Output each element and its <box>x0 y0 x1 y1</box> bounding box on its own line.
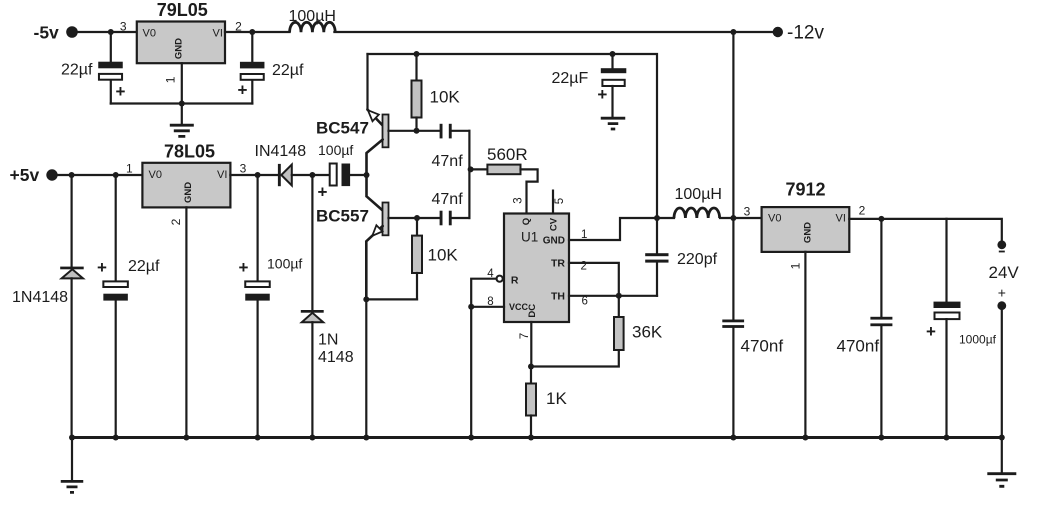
svg-text:VI: VI <box>217 169 227 181</box>
wire U1 pin8 (vcc) <box>471 306 504 308</box>
polarity - (24V top) <box>999 251 1005 253</box>
svg-text:+: + <box>238 81 248 100</box>
svg-text:10K: 10K <box>428 246 459 265</box>
svg-text:22µf: 22µf <box>128 258 160 275</box>
svg-text:GND: GND <box>543 236 565 247</box>
svg-text:2: 2 <box>169 218 183 225</box>
label 1N4148 (D1) <box>12 289 68 306</box>
svg-text:V0: V0 <box>768 213 781 225</box>
svg-text:+: + <box>926 322 936 341</box>
pin label GND (7912, rotated) <box>802 222 813 243</box>
wire Q2 base <box>389 217 441 219</box>
capacitor C6 47nf (upper) <box>440 124 470 139</box>
pin label 3 (U1, rotated) <box>512 197 524 203</box>
inductor L2 100uH <box>674 208 720 218</box>
capacitor C4 100uf (below rail) <box>245 175 270 438</box>
svg-text:GND: GND <box>173 38 184 59</box>
node ground rail x=366.3 <box>363 435 369 441</box>
pin label 1 (78L05 VO) <box>126 162 133 176</box>
svg-text:47nf: 47nf <box>432 153 464 170</box>
capacitor C10 470nf (left) <box>722 218 744 438</box>
label TH (U1) <box>551 290 565 302</box>
wire U1 pin6 (threshold) <box>569 295 657 297</box>
wire 24V positive to ground rail <box>1001 310 1003 438</box>
node -12v feed junction <box>654 215 660 221</box>
resistor R2 10K (lower) <box>412 218 422 299</box>
wire Q2 collector to 10K bottom <box>366 298 417 300</box>
label 1N (D3) <box>318 332 338 349</box>
regulator U4 78L05 body <box>142 163 230 208</box>
pin label 2 (78L05 GND, rotated) <box>169 218 183 225</box>
pin label VO (7912) <box>768 213 781 225</box>
terminal +5v <box>46 169 57 180</box>
svg-text:2: 2 <box>581 261 587 273</box>
node 79L05 ground junction <box>179 101 185 107</box>
pin label 4 (U1) <box>487 268 494 280</box>
svg-text:1000µf: 1000µf <box>959 333 997 347</box>
wire Q2 collector to ground rail <box>365 299 367 437</box>
node ground rail x=946.5 <box>944 435 950 441</box>
svg-text:22µf: 22µf <box>272 62 304 79</box>
diode D2 IN4148 (horizontal, cathode left) <box>278 164 292 186</box>
svg-text:22µF: 22µF <box>552 70 589 87</box>
ground G1 below 79L05 <box>170 125 194 136</box>
wire -5v rail left <box>72 31 137 33</box>
label TR (U1) <box>551 257 565 269</box>
svg-text:-5v: -5v <box>34 23 60 43</box>
wire U1 pin2 (trigger) <box>569 263 619 296</box>
label 560R <box>487 145 528 164</box>
wire U1 pin4 (reset) <box>471 279 496 438</box>
node inner rail / C8 <box>610 51 616 57</box>
label IN4148 <box>255 143 307 160</box>
node top rail / C2 junction <box>249 29 255 35</box>
svg-text:+: + <box>239 258 249 277</box>
label -12v <box>787 23 824 44</box>
svg-text:24V: 24V <box>989 263 1020 282</box>
capacitor C8 22uF <box>601 54 627 118</box>
svg-text:220pf: 220pf <box>677 251 718 268</box>
node ground rail x=257.6 <box>255 435 261 441</box>
node ground rail x=531 <box>528 435 534 441</box>
node pin7/1K/36K junction <box>528 364 534 370</box>
node ground rail x=72 <box>69 435 75 441</box>
pin label VI (78L05) <box>217 169 227 181</box>
svg-text:3: 3 <box>744 205 751 219</box>
wire +5v rail <box>52 174 142 176</box>
polarity + (C12) <box>926 322 936 341</box>
polarity + (C2) <box>238 81 248 100</box>
svg-text:36K: 36K <box>632 323 663 342</box>
svg-text:1: 1 <box>581 229 587 241</box>
node ground rail x=881.4 <box>878 435 884 441</box>
pin label 3 (7912 VO) <box>744 205 751 219</box>
IC U1 555 body <box>504 214 569 323</box>
svg-text:GND: GND <box>183 182 194 203</box>
wire U1 pin7 (discharge) <box>530 322 532 367</box>
regulator U2 7912 body <box>762 207 850 252</box>
node top rail / C1 junction <box>108 29 114 35</box>
wire C5 to emitter junction <box>350 174 366 176</box>
svg-text:TH: TH <box>551 290 565 302</box>
pin label 8 (U1) <box>487 296 493 308</box>
node ground rail x=1001.8 <box>999 435 1005 441</box>
svg-text:GND: GND <box>802 222 813 243</box>
node +5v / C3 <box>113 172 119 178</box>
svg-text:7: 7 <box>519 333 531 339</box>
svg-text:DC: DC <box>527 304 538 318</box>
pin label 1 (79L05 GND, rotated) <box>163 76 177 83</box>
svg-text:100µH: 100µH <box>289 8 336 25</box>
svg-text:+: + <box>97 258 107 277</box>
svg-text:10K: 10K <box>430 88 461 107</box>
label 22uf (C1) <box>61 62 93 79</box>
polarity + (C4) <box>239 258 249 277</box>
wire Q1 base <box>389 130 441 132</box>
capacitor C12 1000uf <box>934 219 961 438</box>
label Q (U1, rotated) <box>521 218 532 225</box>
svg-text:22µf: 22µf <box>61 62 93 79</box>
polarity + (C1) <box>116 82 126 101</box>
label 22uf (C2) <box>272 62 304 79</box>
label 4148 (D3) <box>318 349 354 366</box>
label +5v <box>10 165 40 185</box>
svg-text:1K: 1K <box>546 389 567 408</box>
diode D1 1N4148 (vertical, left column) <box>60 175 83 438</box>
wire -12v vertical feed <box>732 32 734 218</box>
wire 79L05 ground bus <box>111 102 253 104</box>
label DC (U1 discharge, rotated) <box>527 304 538 318</box>
wire ground stub right <box>1001 438 1003 474</box>
capacitor C3 22uf (below +5v rail) <box>103 175 128 438</box>
label 78L05 <box>164 141 215 161</box>
resistor R4 36K <box>614 296 624 350</box>
diode D3 1N4148 (vertical, below D2 junction) <box>301 175 324 438</box>
regulator U3 79L05 body <box>137 22 225 64</box>
label 47nf (C6) <box>432 153 464 170</box>
node ground rail x=733.4 <box>730 435 736 441</box>
node Q2 collector junction <box>363 296 369 302</box>
svg-text:2: 2 <box>859 204 866 218</box>
label -5v <box>34 23 60 43</box>
terminal -12v <box>773 27 783 37</box>
label 79L05 <box>157 0 208 20</box>
wire U1 pin5 stub <box>552 191 554 214</box>
node base1 junction <box>414 128 420 134</box>
label 10K (R2) <box>428 246 459 265</box>
svg-text:100µf: 100µf <box>318 142 353 158</box>
node D2 anode / C4 <box>255 172 261 178</box>
pin label VO (79L05) <box>143 28 156 40</box>
node ground rail x=186.4 <box>183 435 189 441</box>
wire U1 pin1 (gnd) jog to -12v node <box>569 218 657 240</box>
svg-text:V0: V0 <box>143 28 156 40</box>
label GND (U1) <box>543 236 565 247</box>
wire ground rail <box>72 436 1002 439</box>
wire -12v rail <box>334 31 772 33</box>
svg-text:BC557: BC557 <box>316 207 369 226</box>
svg-text:3: 3 <box>512 197 524 203</box>
transistor Q2 BC557 <box>366 175 388 299</box>
ground G3 bottom left <box>61 481 84 492</box>
svg-text:V0: V0 <box>149 169 162 181</box>
svg-text:VCC: VCC <box>509 302 529 312</box>
node ground rail x=471.2 <box>468 435 474 441</box>
svg-text:79L05: 79L05 <box>157 0 208 20</box>
capacitor C7 47nf (lower) <box>440 211 470 226</box>
svg-text:BC547: BC547 <box>316 119 369 138</box>
node 470nf2 junction <box>878 216 884 222</box>
svg-text:1N: 1N <box>318 332 338 349</box>
node 560R junction <box>468 166 474 172</box>
resistor R5 1K <box>526 367 536 438</box>
polarity + (C3) <box>97 258 107 277</box>
pin label 6 (U1) <box>582 296 588 308</box>
pin label VI (79L05) <box>213 28 223 40</box>
terminal -5v <box>66 26 78 38</box>
node -12v rail / vertical feed <box>730 29 736 35</box>
svg-text:VI: VI <box>836 213 846 225</box>
pin label VO (78L05) <box>149 169 162 181</box>
capacitor C9 220pf <box>645 218 668 296</box>
pin label 2 (U1) <box>581 261 587 273</box>
svg-text:100µH: 100µH <box>675 186 722 203</box>
svg-text:1N4148: 1N4148 <box>12 289 68 306</box>
svg-text:-12v: -12v <box>787 23 824 44</box>
capacitor C5 100uf (horizontal polarized) <box>330 164 350 187</box>
pin label 1 (7912 GND, rotated) <box>789 262 803 269</box>
svg-text:4148: 4148 <box>318 349 354 366</box>
wire 47nf right vertical <box>468 131 470 218</box>
node TR/TH/36K junction <box>616 293 622 299</box>
label U1 <box>521 230 538 245</box>
label BC547 <box>316 119 369 138</box>
pin 4 inversion circle (U1) <box>497 276 503 282</box>
wire pin7 junction to 36K bottom <box>531 350 619 367</box>
terminal 24V positive <box>997 301 1006 310</box>
svg-text:TR: TR <box>551 257 565 269</box>
label 7912 <box>785 180 825 200</box>
svg-text:47nf: 47nf <box>432 191 464 208</box>
wire 79L05 GND pin <box>181 63 183 125</box>
wire D2 to C5 <box>292 174 330 176</box>
label 1000uf (C12) <box>959 333 997 347</box>
svg-text:VI: VI <box>213 28 223 40</box>
terminal 24V negative <box>997 240 1006 249</box>
inductor L1 100uH <box>290 22 336 32</box>
svg-text:100µf: 100µf <box>267 256 302 272</box>
pin label GND (79L05, rotated) <box>173 38 184 59</box>
svg-text:R: R <box>511 274 519 286</box>
node base2 junction <box>414 215 420 221</box>
node +5v / D1 <box>69 172 75 178</box>
wire -12v inner rail <box>368 54 658 218</box>
svg-text:5: 5 <box>554 198 566 204</box>
label 100uf (C5) <box>318 142 353 158</box>
label 100uH (L1) <box>289 8 336 25</box>
label 1K (R5) <box>546 389 567 408</box>
svg-text:78L05: 78L05 <box>164 141 215 161</box>
label 47nf (C7) <box>432 191 464 208</box>
capacitor C11 470nf (right) <box>870 219 892 438</box>
svg-text:8: 8 <box>487 296 493 308</box>
node ground rail x=312.4 <box>309 435 315 441</box>
svg-text:4: 4 <box>487 268 494 280</box>
svg-text:+: + <box>998 285 1006 301</box>
label 10K (R1) <box>430 88 461 107</box>
svg-text:Q: Q <box>521 218 532 225</box>
label CV (U1, rotated) <box>549 217 560 231</box>
polarity + (24V bottom) <box>998 285 1006 301</box>
label 220pf (C9) <box>677 251 718 268</box>
pin label 2 (7912 VI) <box>859 204 866 218</box>
resistor R1 10K (upper) <box>412 54 422 131</box>
capacitor C1 22uf left of 79L05 <box>98 32 123 104</box>
pin label GND (78L05, rotated) <box>183 182 194 203</box>
label VCC (U1) <box>509 302 529 312</box>
svg-text:3: 3 <box>240 162 247 176</box>
polarity + (C5) <box>318 183 328 202</box>
node C5 / D3 junction <box>309 172 315 178</box>
ground G4 bottom right <box>987 474 1016 487</box>
svg-text:U1: U1 <box>521 230 538 245</box>
wire 79L05 output to inductor <box>225 31 290 33</box>
capacitor C2 22uf right of 79L05 <box>240 32 265 104</box>
label 470nf (C11) <box>837 337 880 356</box>
svg-text:1: 1 <box>163 76 177 83</box>
pin label 2 (79L05 VI) <box>235 20 242 34</box>
node emitter junction <box>364 172 370 178</box>
label 100uH (L2) <box>675 186 722 203</box>
pin label 7 (U1, rotated) <box>519 333 531 339</box>
svg-text:3: 3 <box>120 20 127 34</box>
label R (U1) <box>511 274 519 286</box>
wire 7912 GND pin to ground rail <box>804 252 806 438</box>
svg-text:IN4148: IN4148 <box>255 143 307 160</box>
svg-text:CV: CV <box>549 217 560 231</box>
polarity + (C8) <box>597 85 607 104</box>
label 470nf (C10) <box>741 337 784 356</box>
node 7912 input junction <box>730 215 736 221</box>
svg-text:1: 1 <box>789 262 803 269</box>
transistor Q1 BC547 <box>367 110 389 176</box>
wire L2 to 7912 <box>720 217 762 219</box>
svg-text:1: 1 <box>126 162 133 176</box>
wire ground stub left <box>71 438 73 482</box>
svg-text:7912: 7912 <box>785 180 825 200</box>
node ground rail x=805.4 <box>802 435 808 441</box>
pin label 3 (79L05 VO) <box>120 20 127 34</box>
label 22uf (C3) <box>128 258 160 275</box>
label 100uf (C4) <box>267 256 302 272</box>
svg-text:+5v: +5v <box>10 165 40 185</box>
svg-text:+: + <box>116 82 126 101</box>
label 36K (R4) <box>632 323 663 342</box>
svg-text:6: 6 <box>582 296 588 308</box>
wire 560R to U1 pin3 <box>521 169 538 213</box>
node pin4/pin8 junction <box>468 304 474 310</box>
svg-text:560R: 560R <box>487 145 528 164</box>
pin label 3 (78L05 VI) <box>240 162 247 176</box>
label 22uF (C8) <box>552 70 589 87</box>
svg-text:470nf: 470nf <box>741 337 784 356</box>
wire 7912 input from 24V <box>849 219 1002 241</box>
wire junction to inductor L2 <box>657 217 674 219</box>
svg-text:470nf: 470nf <box>837 337 880 356</box>
label BC557 <box>316 207 369 226</box>
node ground rail x=115.7 <box>113 435 119 441</box>
pin label 5 (U1, rotated) <box>554 198 566 204</box>
pin label VI (7912) <box>836 213 846 225</box>
resistor R3 560R <box>471 165 521 175</box>
svg-text:+: + <box>318 183 328 202</box>
wire Q1 collector vertical <box>366 54 368 110</box>
wire 78L05 output to diode D2 <box>230 174 278 176</box>
svg-text:+: + <box>597 85 607 104</box>
ground G2 below C8 <box>601 118 626 129</box>
pin label 1 (U1) <box>581 229 587 241</box>
label 24V <box>989 263 1020 282</box>
wire 78L05 GND pin to ground rail <box>185 207 187 437</box>
node inner rail / R1 <box>414 51 420 57</box>
